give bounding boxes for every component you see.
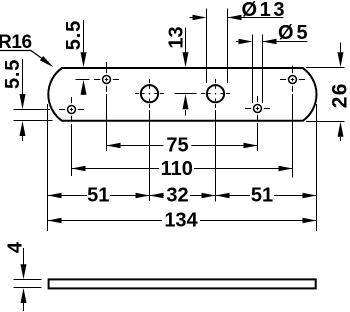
dimension 13 lines [175,28,197,116]
extension line plate right [316,104,318,231]
svg-text:5.5: 5.5 [63,20,85,50]
plate outline top view [48,68,316,121]
dimension dia5 arrows [239,39,253,44]
hole H1 [103,76,111,84]
dimension 5.5 top lines [76,20,90,95]
dimension dia13 arrows [193,15,207,20]
svg-text:Ø5: Ø5 [278,22,311,44]
side view bar [49,279,316,288]
extension line plate left [47,104,49,231]
hole H2 [68,106,76,114]
dimension row 51-32-51 [48,195,317,197]
dimension 26 lines [306,43,345,142]
hole H4 centerlines [201,79,230,202]
svg-text:R16: R16 [0,32,32,53]
hole H3 (dia 13) [141,85,158,102]
hole H3 centerlines [135,79,164,201]
dimension 5.5 top arrows [81,52,87,67]
svg-text:75: 75 [166,135,188,157]
dimension row 134 [48,220,317,222]
dimension 5.5 left lines [14,59,53,141]
svg-text:51: 51 [251,185,273,207]
hole H2 centerlines [59,97,84,176]
svg-text:51: 51 [87,185,109,207]
svg-text:13: 13 [166,26,188,48]
dimension row 110 [72,168,293,170]
hole H5 (dia 5) [254,105,262,113]
svg-text:26: 26 [329,82,350,108]
hole H4 (dia 13) [207,85,224,102]
dimension dia5 lines [236,35,308,104]
dimension 13 arrows [183,52,189,67]
svg-text:32: 32 [166,185,188,207]
dimension 5.5 left arrows [20,94,26,109]
hole H5 centerlines [245,96,270,151]
hole H1 centerlines [94,62,119,151]
leader line R16 [0,51,44,61]
svg-text:5.5: 5.5 [2,59,24,89]
hole H6 centerlines [280,66,305,178]
svg-text:134: 134 [164,210,198,232]
dimension 4 arrows [21,264,27,279]
svg-text:110: 110 [161,158,193,180]
dimension row 75 [107,145,258,147]
dimension dia13 lines [190,9,284,84]
dimension 26 arrows [338,52,344,67]
hole H6 [289,76,297,84]
dimension 4 lines [14,248,42,311]
